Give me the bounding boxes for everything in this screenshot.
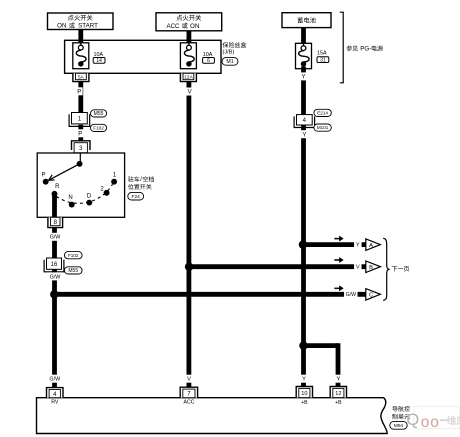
wire V: 12A down to junction [186, 82, 191, 267]
svg-text:Y: Y [337, 377, 341, 383]
wire: ignition ON/START to fuse 14 [78, 30, 83, 46]
svg-text:PG-: PG- [360, 46, 371, 53]
power source box: battery [282, 13, 331, 28]
svg-text:+B: +B [335, 400, 342, 406]
wire Y: junction down to +B junction [301, 245, 306, 346]
svg-text:G/W: G/W [50, 235, 62, 241]
svg-text:M55: M55 [68, 268, 78, 274]
svg-text:ON: ON [57, 22, 66, 29]
navigation control unit box [37, 398, 388, 434]
connector 4 pin RV [47, 388, 64, 406]
svg-text:o: o [430, 414, 439, 431]
next-page triangle B [366, 261, 381, 273]
wire G/W: connector 16 to junction [52, 269, 57, 294]
next-page triangle C [366, 289, 381, 301]
svg-text:o: o [421, 414, 430, 431]
dashed selector arc [57, 184, 113, 203]
wire Y to triangle A [304, 242, 366, 247]
flow arrow [335, 286, 344, 291]
junction Y (+B split) [299, 341, 307, 349]
wire label Y [335, 375, 341, 383]
svg-text:/: / [140, 177, 142, 183]
next-page triangle A [366, 239, 381, 251]
power source box: ignition switch ACC or ON [156, 13, 222, 31]
svg-text:V: V [187, 377, 191, 383]
power source box: ignition switch ON or START [48, 13, 114, 30]
svg-text:C: C [369, 293, 373, 299]
svg-text:6: 6 [207, 58, 210, 64]
svg-text:G/W: G/W [346, 292, 356, 298]
svg-text:M55: M55 [94, 111, 104, 117]
position R contact [52, 191, 58, 197]
svg-text:1: 1 [113, 173, 117, 179]
position 2 contact [104, 190, 110, 196]
svg-text:ON: ON [190, 23, 199, 30]
svg-text:16: 16 [51, 262, 58, 268]
position P contact [43, 179, 49, 185]
position N contact [69, 202, 75, 208]
wire label G/W [48, 375, 61, 383]
svg-text:31: 31 [320, 57, 326, 63]
svg-text:B: B [369, 265, 373, 271]
wire P: 5A down to connector 1 [78, 82, 83, 113]
svg-text:V: V [356, 265, 360, 271]
connector 4 (E214/M101) [297, 115, 313, 125]
svg-text:M101: M101 [317, 125, 329, 130]
wire label G/W [48, 272, 61, 280]
svg-text:P: P [77, 89, 81, 95]
wire: ignition ACC/ON to fuse 6 [186, 31, 191, 45]
switch arm to P with arrow [49, 164, 80, 181]
wire V to triangle B [189, 264, 366, 269]
wire label Y [300, 72, 307, 80]
svg-text:D: D [87, 194, 92, 200]
connector ref E214 [314, 109, 331, 116]
connector ref M55 [64, 267, 82, 274]
connector 10 pin +B [296, 387, 312, 406]
flow arrow [335, 257, 344, 262]
svg-text:10: 10 [301, 391, 307, 397]
svg-text:R: R [55, 184, 60, 190]
fuse 15A #31 (battery) [296, 43, 329, 68]
wire Y: fuse 31 down to connector 4 [301, 67, 306, 115]
svg-text:+B: +B [301, 400, 308, 406]
wire label Y [354, 241, 362, 249]
wire G/W: connector 8 to connector 16 [52, 228, 57, 258]
svg-text:14: 14 [96, 58, 102, 64]
wire P: connector 1 to switch [78, 125, 83, 141]
svg-text:Y: Y [302, 132, 306, 138]
fuse 10A #14 [73, 43, 105, 69]
wire: battery to fuse 31 [301, 28, 306, 46]
svg-text:2: 2 [100, 187, 104, 193]
switch label 驻车/空档 位置开关 F24 [128, 176, 154, 200]
svg-text:P: P [78, 131, 82, 137]
svg-text:Y: Y [356, 242, 360, 248]
connector 8 on switch [48, 217, 63, 227]
flow arrow [335, 236, 344, 241]
svg-text:M1: M1 [226, 59, 233, 65]
svg-text:15A: 15A [317, 51, 327, 57]
junction V [185, 263, 193, 271]
wire V: junction down to nav unit pin 7 [186, 267, 191, 390]
svg-text:Y: Y [302, 377, 306, 383]
svg-text:START: START [78, 22, 98, 29]
svg-text:E214: E214 [317, 111, 328, 116]
junction Y (to A) [299, 240, 307, 248]
svg-text:A: A [369, 243, 373, 249]
wire label V [186, 88, 193, 96]
connector ref F102 [64, 252, 82, 259]
fuse block label 保险丝盒 (J/B) M1 [222, 42, 246, 65]
park/neutral position switch F24 box [37, 153, 124, 217]
wire label V [186, 375, 192, 383]
svg-text:(J/B): (J/B) [223, 50, 235, 56]
wire G/W: junction down to nav unit pin 4 [52, 294, 57, 389]
svg-text:F24: F24 [132, 194, 141, 200]
svg-text:12: 12 [335, 391, 341, 397]
connector ref M55 [91, 110, 107, 117]
connector ref M101 [314, 124, 331, 131]
reference bracket: see PG-power supply [340, 12, 383, 83]
unit label 导航控制单元 M94 [390, 406, 410, 429]
wire label P [77, 129, 84, 137]
wire label P [76, 87, 83, 95]
fuse block (J/B) box [65, 40, 221, 73]
wire from R contact down [52, 194, 57, 218]
fuse 10A #6 [180, 43, 214, 69]
svg-text:Y: Y [301, 75, 305, 81]
svg-text:P: P [41, 172, 45, 178]
svg-text:N: N [68, 195, 72, 201]
watermark [406, 406, 460, 431]
connector 12A [180, 73, 196, 81]
wire G/W to triangle C [55, 292, 366, 297]
connector 12 pin +B [330, 387, 346, 406]
svg-text:ACC: ACC [184, 400, 195, 406]
wire label Y [301, 375, 307, 383]
connector ref F102 [91, 124, 107, 131]
svg-text:12A: 12A [184, 74, 193, 80]
position D contact [86, 200, 92, 206]
switch pivot lead [79, 153, 81, 164]
svg-text:RV: RV [51, 400, 59, 406]
svg-text:Q: Q [406, 411, 419, 429]
connector 16 (F102/M55) [47, 258, 62, 269]
svg-text:5A: 5A [78, 74, 85, 79]
svg-text:ACC: ACC [166, 23, 180, 30]
wire label Y [301, 130, 308, 138]
wire label V [354, 263, 362, 271]
connector 1 (M55/F102) [72, 113, 88, 124]
junction G/W [50, 290, 58, 298]
wire Y: to nav unit pin 10 [301, 346, 306, 389]
switch pivot contact [77, 161, 83, 167]
svg-text:G/W: G/W [49, 377, 61, 383]
next page brace 下一页 [383, 238, 409, 300]
wire label G/W [48, 233, 61, 241]
svg-text:V: V [188, 90, 192, 96]
svg-text:M94: M94 [394, 423, 404, 429]
wire label G/W [344, 290, 358, 298]
wire Y: connector 4 down to junction [301, 125, 306, 245]
svg-text:F102: F102 [68, 253, 79, 258]
connector 3 on switch [72, 141, 91, 153]
position 1 contact [111, 179, 117, 185]
connector 5A [73, 73, 89, 81]
svg-text:F102: F102 [93, 126, 104, 131]
wire Y branch to pin 12 [304, 343, 339, 389]
svg-text:G/W: G/W [50, 274, 62, 280]
connector 7 pin ACC [180, 387, 197, 405]
